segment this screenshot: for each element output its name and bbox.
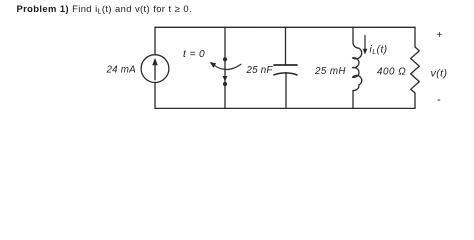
switch SW1 bottom contact dot — [223, 82, 227, 86]
svg-text:400 Ω: 400 Ω — [377, 67, 406, 78]
wire capacitor branch bottom — [285, 73, 287, 109]
wire left branch bottom (source to bottom rail) — [154, 83, 156, 109]
svg-text:24 mA: 24 mA — [106, 65, 137, 76]
svg-text:-: - — [437, 94, 441, 106]
switch SW1 top contact dot — [223, 57, 227, 61]
current source I1 arrow — [154, 65, 156, 80]
resistor R1 zigzag — [411, 47, 420, 93]
capacitor C1 top plate — [274, 64, 297, 66]
svg-text:25 nF: 25 nF — [246, 65, 274, 76]
current source I1 arrowhead — [152, 58, 158, 65]
wire inductor branch bottom — [352, 91, 354, 109]
inductor current arrow iL head — [363, 49, 368, 55]
wire left branch top (source to top rail) — [154, 27, 156, 54]
wire inductor branch top — [352, 27, 354, 42]
wire switch branch — [224, 27, 226, 108]
svg-text:iL(t): iL(t) — [370, 45, 388, 57]
switch SW1 motion arc arrowhead — [210, 62, 217, 68]
current source I1 circle — [141, 55, 169, 83]
capacitor C1 bottom curved plate — [274, 73, 297, 75]
svg-text:+: + — [437, 30, 443, 41]
switch SW1 motion arc — [214, 64, 242, 69]
switch SW1 blade arrowhead — [223, 76, 228, 81]
wire bottom rail — [155, 107, 415, 109]
wire resistor branch bottom — [414, 93, 416, 108]
inductor L1 coil — [353, 43, 362, 91]
wire top rail — [155, 26, 415, 28]
svg-text:v(t): v(t) — [431, 67, 448, 79]
wire capacitor branch top — [285, 27, 287, 65]
title: Problem 1) Find iL(t) and v(t) for t >= 0. — [17, 3, 192, 14]
svg-text:25 mH: 25 mH — [314, 66, 346, 77]
wire resistor branch top — [414, 27, 416, 47]
inductor current arrow iL shaft — [364, 35, 366, 50]
svg-text:t = 0: t = 0 — [183, 49, 205, 60]
